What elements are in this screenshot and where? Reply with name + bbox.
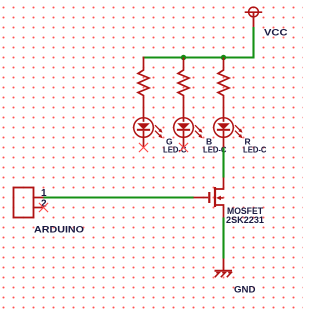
LED G: [134, 118, 163, 148]
unconnected pin X at LED G cathode: [139, 143, 148, 152]
svg-text:ARDUINO: ARDUINO: [34, 225, 84, 236]
resistor R1: [138, 58, 149, 118]
wire VCC stem to bus: [252, 27, 254, 58]
LED R: [214, 118, 243, 148]
wire MOSFET source to GND: [222, 218, 224, 259]
wire horizontal bus: [143, 56, 255, 58]
LED B: [174, 118, 203, 148]
resistor R3: [218, 58, 229, 118]
svg-text:LED-C: LED-C: [243, 144, 267, 154]
gate plate: [208, 192, 210, 203]
unconnected pin X at ARDUINO pin 2: [39, 203, 48, 212]
junction at R2 top: [181, 55, 186, 60]
channel bar: [214, 187, 216, 207]
svg-text:VCC: VCC: [264, 28, 288, 39]
power symbol VCC: [245, 7, 263, 27]
resistor R2: [178, 58, 189, 118]
transistor MOSFET 2SK2231: [194, 178, 224, 218]
connector body: [14, 188, 34, 218]
pin 2 stub: [34, 207, 44, 209]
connector ARDUINO: [14, 188, 44, 218]
svg-text:1: 1: [41, 188, 47, 199]
wire bus corner to R1: [143, 56, 145, 59]
source lead: [215, 205, 224, 218]
gate pin: [194, 197, 209, 199]
svg-text:GND: GND: [234, 285, 256, 296]
junction at R3 top: [221, 55, 226, 60]
ground GND symbol: [215, 259, 233, 278]
drain lead: [215, 178, 224, 190]
wire ARDUINO pin 1 to MOSFET gate: [44, 196, 194, 198]
body connection with arrow: [220, 197, 224, 199]
unconnected pin X at LED B cathode: [179, 143, 188, 152]
svg-text:2SK2231: 2SK2231: [226, 215, 265, 226]
pin 1 stub: [34, 197, 44, 199]
wire LED R cathode to MOSFET drain: [222, 148, 224, 178]
